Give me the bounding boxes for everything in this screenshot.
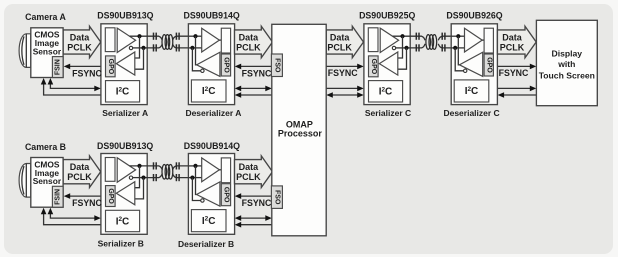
svg-text:DS90UB914Q: DS90UB914Q	[184, 141, 240, 151]
coupling capacitor on bottom right C	[441, 44, 443, 51]
serial-to-parallel block of deserializer B	[221, 158, 230, 183]
wire back-channel tap + of deserializer A	[196, 36, 197, 65]
svg-text:PCLK: PCLK	[236, 172, 261, 182]
coupling capacitor on bottom right A	[175, 44, 177, 51]
serializer C outer box	[364, 24, 410, 105]
camera B lens rim	[22, 166, 24, 194]
camera A lens rim	[22, 36, 24, 64]
wire twisted pair top C	[410, 36, 425, 40]
wire DOUT- of serializer A	[133, 47, 148, 49]
svg-text:PCLK: PCLK	[327, 42, 352, 52]
serializer C DS90UB925Q	[364, 24, 410, 105]
Data/PCLK bus arrow OMAP to serializer C	[326, 26, 363, 58]
wire I2C deserializer C - display line 2	[502, 94, 536, 96]
svg-text:GPO: GPO	[223, 187, 230, 203]
svg-text:I2C: I2C	[202, 86, 216, 97]
OMAP processor box	[272, 24, 326, 236]
deserializer B DS90UB914Q	[188, 154, 234, 235]
wire RIN- of deserializer A	[188, 47, 201, 49]
wire receiver to serial-parallel of deserializer A	[219, 39, 221, 41]
svg-text:Data: Data	[70, 162, 91, 172]
GPO block of serializer A	[106, 56, 116, 77]
serializer C output driver triangle	[380, 28, 398, 52]
FSO block of OMAP (top)	[271, 54, 282, 77]
wire I2C OMAP - serializer C line 1	[326, 87, 359, 89]
wire RIN+ of deserializer B	[188, 165, 201, 167]
wire DOUT+ of serializer A	[130, 35, 148, 37]
inversion bubble on deserializer A driver	[201, 69, 204, 72]
serializer B DS90UB913Q	[101, 154, 147, 235]
back-channel receiver triangle of serializer C	[379, 52, 398, 75]
deserializer A outer box	[188, 24, 234, 105]
twisted pair coil A	[162, 35, 167, 50]
svg-text:FSYNC: FSYNC	[499, 68, 529, 78]
wire back-channel tap + of deserializer B	[196, 166, 197, 195]
wire back-channel tap - of serializer A	[135, 48, 144, 69]
coupling capacitor on top left B	[153, 162, 155, 169]
twisted pair coil B	[162, 164, 167, 179]
back-channel driver triangle of deserializer B	[197, 182, 220, 206]
svg-text:Sensor: Sensor	[33, 47, 62, 57]
wire DOUT+ of serializer C	[393, 35, 411, 37]
svg-text:FSYNC: FSYNC	[328, 68, 358, 78]
twisted pair coil C	[426, 35, 431, 50]
CMOS image sensor box of camera B	[31, 158, 63, 208]
deserializer C outer box	[451, 24, 497, 105]
node RIN+ junction of deserializer C	[456, 34, 460, 38]
Data/PCLK bus arrow deserializer B to OMAP	[235, 156, 273, 188]
svg-text:GPO: GPO	[485, 57, 492, 73]
svg-text:DS90UB913Q: DS90UB913Q	[97, 141, 153, 151]
coupling capacitor on top left C	[415, 33, 417, 40]
back-channel receiver triangle of serializer B	[116, 182, 135, 205]
wire RIN- of deserializer C	[451, 47, 464, 49]
serial-to-parallel block of deserializer C	[484, 28, 493, 53]
back-channel driver triangle of deserializer C	[459, 52, 482, 76]
svg-text:PCLK: PCLK	[67, 172, 92, 182]
wire FSYNC OMAP to serializer C	[326, 65, 359, 67]
wire back-channel tap + of serializer A	[135, 36, 140, 58]
svg-text:Data: Data	[70, 33, 91, 43]
svg-text:GPO: GPO	[370, 59, 377, 75]
node RIN- junction of deserializer B	[190, 176, 194, 180]
wire twisted pair bottom A	[147, 44, 162, 48]
node RIN+ junction of deserializer A	[193, 34, 197, 38]
wire I2C deserializer B - OMAP line 2	[239, 224, 272, 226]
camera A lens	[19, 34, 31, 68]
svg-text:PCLK: PCLK	[500, 42, 525, 52]
wire I2C deserializer B - OMAP line 1	[239, 217, 268, 219]
serializer B output driver triangle	[117, 158, 135, 182]
back-channel receiver triangle of serializer A	[116, 52, 135, 75]
display with touch screen box	[536, 20, 597, 105]
wire back-channel tap + of deserializer C	[458, 36, 459, 65]
svg-text:FSYNC: FSYNC	[242, 198, 272, 208]
svg-text:FSO: FSO	[274, 58, 281, 73]
serializer A outer box	[101, 24, 147, 105]
node DOUT+ junction of serializer C	[400, 34, 404, 38]
svg-text:Deserializer B: Deserializer B	[178, 239, 234, 249]
input receiver triangle of deserializer C	[465, 28, 483, 52]
svg-text:DS90UB926Q: DS90UB926Q	[446, 11, 502, 21]
serializer A parallel-to-serial block	[105, 28, 115, 52]
wire RIN+ of deserializer C	[451, 35, 464, 37]
svg-text:Serializer C: Serializer C	[365, 108, 411, 118]
camera B	[19, 158, 63, 208]
wire I2C OMAP - serializer C line 2	[331, 94, 360, 96]
wire RIN- of deserializer B	[188, 177, 201, 179]
node DOUT+ junction of serializer A	[137, 34, 141, 38]
wire back-channel tap - of serializer C	[398, 48, 407, 69]
svg-text:Camera B: Camera B	[25, 142, 66, 152]
svg-text:Data: Data	[239, 162, 260, 172]
svg-text:FSYNC: FSYNC	[242, 69, 272, 79]
wire I2C camera B line 1	[50, 211, 97, 218]
wire back-channel tap + of serializer B	[135, 166, 140, 188]
input receiver triangle of deserializer A	[202, 28, 220, 52]
svg-text:Camera A: Camera A	[25, 12, 66, 22]
coupling capacitor on bottom left C	[415, 44, 417, 51]
wire I2C camera A line 1	[50, 82, 97, 89]
node RIN+ junction of deserializer B	[193, 164, 197, 168]
svg-text:GPO: GPO	[107, 188, 114, 204]
wire twisted pair bottom C	[410, 44, 425, 48]
svg-text:Data: Data	[502, 33, 523, 43]
wire back-channel tap - of deserializer A	[192, 48, 200, 71]
node DOUT+ junction of serializer B	[137, 164, 141, 168]
I2C block of serializer A	[106, 81, 140, 102]
FSO block of OMAP (bottom)	[271, 186, 282, 209]
wire DOUT+ of serializer B	[130, 165, 148, 167]
node DOUT- junction of serializer B	[141, 176, 145, 180]
wire back-channel tap + of serializer C	[398, 36, 403, 58]
wire I2C deserializer A - OMAP line 2	[239, 94, 272, 96]
serializer A output driver triangle	[117, 28, 135, 52]
wire FSYNC deserializer C to display	[498, 65, 533, 67]
I2C block of deserializer B	[191, 210, 226, 232]
serializer C parallel-to-serial block	[368, 28, 378, 52]
I2C block of serializer C	[369, 81, 403, 102]
camera B lens	[19, 164, 31, 198]
wire I2C deserializer A - OMAP line 1	[239, 87, 268, 89]
input receiver triangle of deserializer B	[202, 158, 220, 182]
wire DOUT- of serializer C	[396, 47, 411, 49]
wire I2C camera A line 2	[44, 82, 101, 96]
svg-text:PCLK: PCLK	[67, 42, 92, 52]
GPO block of serializer C	[369, 56, 379, 77]
wire back-channel tap - of deserializer C	[455, 48, 463, 71]
coupling capacitor on top right B	[175, 162, 177, 169]
svg-text:FSIN: FSIN	[55, 59, 62, 75]
node DOUT- junction of serializer C	[404, 46, 408, 50]
inversion bubble on serializer A driver	[129, 46, 132, 49]
wire twisted pair top A	[147, 36, 162, 40]
wire twisted pair top B	[147, 166, 162, 170]
FSIN block of camera B	[52, 186, 63, 207]
svg-text:Deserializer C: Deserializer C	[443, 108, 499, 118]
deserializer B outer box	[188, 154, 234, 235]
svg-text:Serializer A: Serializer A	[102, 108, 148, 118]
inversion bubble on deserializer B driver	[201, 199, 204, 202]
wire RIN+ of deserializer A	[188, 35, 201, 37]
I2C block of deserializer A	[191, 80, 226, 102]
back-channel driver triangle of deserializer A	[197, 52, 220, 76]
wire DOUT- of serializer B	[133, 177, 148, 179]
wire receiver to serial-parallel of deserializer C	[482, 39, 484, 41]
GPO block of deserializer B	[221, 184, 230, 206]
svg-text:DS90UB925Q: DS90UB925Q	[359, 11, 415, 21]
svg-text:Display: Display	[552, 49, 583, 59]
svg-text:DS90UB913Q: DS90UB913Q	[97, 11, 153, 21]
coupling capacitor on bottom left A	[153, 44, 155, 51]
deserializer A DS90UB914Q	[188, 24, 234, 105]
svg-text:FSYNC: FSYNC	[72, 198, 102, 208]
wire twisted pair bottom B	[147, 174, 162, 178]
svg-text:Data: Data	[239, 33, 260, 43]
Data/PCLK bus arrow deserializer C to display	[497, 26, 536, 58]
GPO block of serializer B	[106, 186, 116, 207]
svg-text:GPO: GPO	[107, 59, 114, 75]
GPO block of deserializer C	[484, 54, 493, 76]
wire back-channel tap - of serializer B	[135, 178, 144, 199]
camera A	[19, 28, 63, 78]
svg-text:Serializer B: Serializer B	[98, 239, 144, 249]
Data/PCLK bus arrow camera A to serializer A	[63, 26, 100, 58]
svg-text:FSYNC: FSYNC	[72, 69, 102, 79]
svg-text:FSO: FSO	[274, 190, 281, 205]
coupling capacitor on bottom right B	[175, 174, 177, 181]
svg-text:Deserializer A: Deserializer A	[185, 108, 241, 118]
wire receiver to serial-parallel of deserializer B	[219, 169, 221, 171]
wire FSYNC serializer A to camera A FSIN	[69, 65, 101, 67]
wire I2C camera B line 2	[44, 211, 101, 225]
svg-text:with: with	[557, 59, 575, 69]
node RIN- junction of deserializer A	[190, 46, 194, 50]
svg-text:Processor: Processor	[278, 129, 323, 139]
Data/PCLK bus arrow deserializer A to OMAP	[235, 26, 273, 58]
wire I2C deserializer C - display line 1	[498, 87, 533, 89]
node DOUT- junction of serializer A	[141, 46, 145, 50]
svg-text:DS90UB914Q: DS90UB914Q	[183, 11, 239, 21]
inversion bubble on deserializer C driver	[464, 69, 467, 72]
coupling capacitor on top left A	[153, 33, 155, 40]
I2C block of deserializer C	[454, 80, 489, 102]
svg-text:GPO: GPO	[223, 57, 230, 73]
CMOS image sensor box of camera A	[31, 28, 63, 78]
wire back-channel tap - of deserializer B	[192, 178, 200, 201]
svg-text:I2C: I2C	[465, 86, 479, 97]
svg-text:I2C: I2C	[379, 86, 393, 97]
I2C block of serializer B	[106, 210, 140, 231]
wire FSYNC serializer B to camera B FSIN	[69, 195, 101, 197]
svg-text:I2C: I2C	[116, 86, 130, 97]
svg-text:Touch Screen: Touch Screen	[539, 70, 595, 80]
serializer A DS90UB913Q	[101, 24, 147, 105]
FSIN block of camera A	[52, 57, 63, 78]
Data/PCLK bus arrow camera B to serializer B	[63, 156, 100, 188]
wire FSYNC OMAP FSO to deserializer A	[240, 65, 272, 67]
inversion bubble on serializer C driver	[392, 46, 395, 49]
serializer B parallel-to-serial block	[105, 158, 115, 182]
svg-text:FSIN: FSIN	[55, 189, 62, 205]
wire FSYNC OMAP FSO to deserializer B	[240, 195, 272, 197]
node RIN- junction of deserializer C	[453, 46, 457, 50]
serializer B outer box	[101, 154, 147, 235]
coupling capacitor on bottom left B	[153, 174, 155, 181]
svg-text:I2C: I2C	[116, 216, 130, 227]
inversion bubble on serializer B driver	[129, 176, 132, 179]
svg-text:PCLK: PCLK	[236, 42, 261, 52]
GPO block of deserializer A	[221, 54, 230, 76]
serial-to-parallel block of deserializer A	[221, 28, 230, 53]
svg-text:Sensor: Sensor	[33, 176, 62, 186]
svg-text:Data: Data	[330, 33, 351, 43]
coupling capacitor on top right A	[175, 33, 177, 40]
coupling capacitor on top right C	[441, 33, 443, 40]
deserializer C DS90UB926Q	[451, 24, 497, 105]
svg-text:I2C: I2C	[202, 216, 216, 227]
